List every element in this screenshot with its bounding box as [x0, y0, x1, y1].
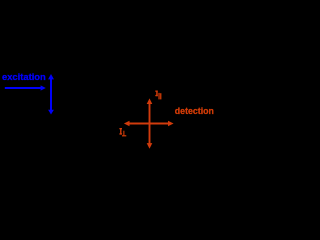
svg-text:detection: detection	[175, 106, 214, 116]
svg-text:excitation: excitation	[2, 71, 46, 82]
